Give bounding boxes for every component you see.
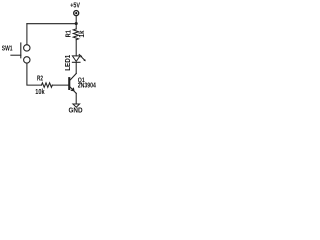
power flag +5V <box>70 1 80 16</box>
wire switch down and across <box>27 63 42 85</box>
svg-text:GND: GND <box>69 107 83 114</box>
wire top horizontal <box>27 23 76 25</box>
wire R2 to base <box>52 84 68 86</box>
wire junction to R1 <box>75 24 77 29</box>
transistor Q1 2N3904 <box>68 74 96 94</box>
LED LED1 <box>65 54 86 70</box>
wire power to junction <box>75 16 77 23</box>
resistor R2 10k <box>35 74 52 96</box>
switch SW1 <box>2 43 30 63</box>
resistor R1 1k <box>65 29 86 40</box>
wire R1 to LED <box>75 40 77 56</box>
svg-text:R2: R2 <box>37 74 43 83</box>
node junction dot <box>75 22 78 25</box>
ground <box>69 104 83 114</box>
wire left vertical to switch <box>26 24 28 45</box>
wire collector up to LED <box>75 63 77 74</box>
svg-text:SW1: SW1 <box>2 44 13 53</box>
svg-text:1k: 1k <box>79 30 86 37</box>
svg-text:LED1: LED1 <box>65 55 72 71</box>
wire emitter to ground <box>75 93 77 104</box>
svg-text:10k: 10k <box>35 87 44 96</box>
svg-text:R1: R1 <box>65 30 72 37</box>
svg-text:2N3904: 2N3904 <box>78 82 96 89</box>
svg-text:+5V: +5V <box>70 1 80 10</box>
